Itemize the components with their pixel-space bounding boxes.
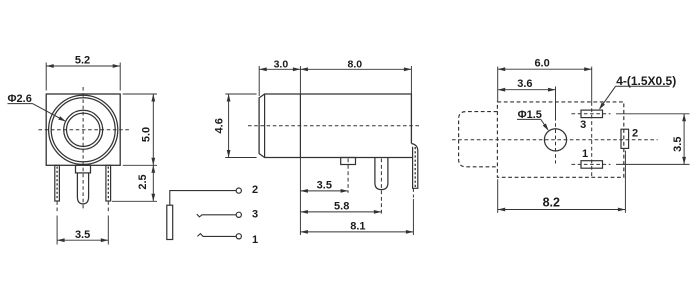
side view barrel/body junction line bbox=[299, 94, 301, 158]
dimension 4.6 extension lines bbox=[225, 94, 256, 158]
svg-text:5.8: 5.8 bbox=[334, 200, 349, 212]
schematic terminal circle 2 bbox=[236, 188, 241, 193]
dimension 8.1 extension line bbox=[412, 199, 414, 235]
dimension 3.0 bbox=[259, 58, 300, 71]
dimension 4.6 bbox=[213, 94, 230, 158]
svg-text:5.0: 5.0 bbox=[141, 127, 153, 142]
svg-text:8.2: 8.2 bbox=[543, 195, 560, 209]
side terminal pin (side view) bbox=[411, 144, 417, 198]
label Φ1.5 with leader bbox=[517, 109, 549, 131]
top view body (hidden outline) bbox=[497, 102, 623, 177]
dimension 3.5 (top view) bbox=[672, 114, 686, 165]
dimension 3.6 bbox=[498, 78, 556, 92]
front view hole outer circle bbox=[64, 110, 103, 149]
dimension 3.5 (front view) bbox=[57, 229, 108, 242]
schematic wire to pin 3 bbox=[197, 214, 236, 217]
hole circle Φ1.5 (top view) bbox=[544, 129, 566, 151]
front view vertical centerline bbox=[82, 87, 84, 210]
side view centerline bbox=[248, 125, 419, 127]
svg-text:3.0: 3.0 bbox=[274, 58, 289, 70]
center pin sleeve collar bbox=[76, 165, 91, 173]
side view barrel chamfer line bbox=[264, 94, 266, 158]
dimension 3.5 (side view) bbox=[300, 179, 348, 192]
pin left (front view) bbox=[55, 165, 60, 201]
svg-text:5.2: 5.2 bbox=[75, 55, 90, 67]
pin right (front view) bbox=[106, 165, 111, 201]
svg-text:8.1: 8.1 bbox=[350, 220, 365, 232]
schematic plug body bbox=[167, 205, 173, 239]
front view hole circle Φ2.6 bbox=[67, 113, 100, 146]
pin centerline tails (front view) bbox=[57, 201, 108, 212]
svg-text:3: 3 bbox=[252, 208, 258, 220]
dimension 5.0 bbox=[141, 94, 156, 165]
schematic terminal circle 1 bbox=[236, 234, 241, 239]
svg-text:2: 2 bbox=[632, 128, 638, 140]
pad 1 centerline bbox=[572, 163, 611, 165]
front view outer barrel circle bbox=[49, 95, 118, 164]
dimension 5.2 bbox=[46, 55, 120, 68]
pad 3 centerline bbox=[572, 113, 611, 115]
side view body outline bbox=[259, 94, 413, 158]
dimension 8.1 bbox=[300, 220, 413, 233]
top view main centerline bbox=[452, 139, 658, 141]
note 4-(1.5X0.5) with leader bbox=[599, 74, 676, 110]
label Φ2.6 with leader bbox=[8, 93, 66, 122]
svg-text:1: 1 bbox=[582, 148, 588, 160]
mounting tab (side view) bbox=[341, 158, 356, 193]
svg-text:2.5: 2.5 bbox=[137, 174, 149, 189]
solder pad 3 (top view) bbox=[581, 110, 603, 118]
hole vertical centerline bbox=[555, 87, 557, 164]
solder pad 2 (top view) bbox=[621, 129, 629, 148]
dimension 3.0/8.0 extension lines bbox=[259, 66, 411, 96]
svg-text:6.0: 6.0 bbox=[534, 57, 549, 69]
front view body outline bbox=[46, 94, 120, 165]
dimension 2.5 bbox=[137, 165, 155, 201]
top view barrel (hidden outline) bbox=[459, 112, 498, 167]
solder pad 1 (top view) bbox=[581, 161, 603, 169]
dimension 5.8 bbox=[300, 200, 381, 213]
dimension 6.0/3.6 extension lines bbox=[498, 67, 592, 102]
svg-text:3: 3 bbox=[580, 119, 586, 131]
svg-text:3.5: 3.5 bbox=[75, 229, 90, 241]
pad axis hidden line bbox=[591, 102, 593, 177]
svg-text:4.6: 4.6 bbox=[213, 118, 225, 133]
schematic terminal circle 3 bbox=[236, 212, 241, 217]
bottom dimensions datum extension line bbox=[299, 158, 301, 236]
center pin shank bbox=[77, 173, 88, 204]
svg-text:2: 2 bbox=[252, 184, 258, 196]
svg-text:1: 1 bbox=[252, 234, 258, 246]
front view barrel inner ring bbox=[51, 98, 115, 162]
dimension 5.2 extension lines bbox=[46, 63, 120, 91]
dimension 3.5 extension lines (top view) bbox=[616, 114, 690, 165]
svg-text:8.0: 8.0 bbox=[347, 58, 362, 70]
center pin (side view) bbox=[375, 158, 388, 215]
dimension 8.2 bbox=[498, 195, 626, 211]
dimension 3.5 extension lines (front view) bbox=[57, 216, 108, 245]
svg-text:3.6: 3.6 bbox=[517, 78, 532, 90]
dimension 8.0 bbox=[300, 58, 411, 71]
schematic wire to pin 2 bbox=[170, 191, 236, 206]
front view horizontal centerline bbox=[39, 129, 131, 131]
svg-text:Φ2.6: Φ2.6 bbox=[8, 93, 32, 105]
svg-text:3.5: 3.5 bbox=[317, 179, 332, 191]
dimension 5.0 and 2.5 extension lines bbox=[112, 94, 157, 201]
dimension 8.2 extension lines bbox=[498, 151, 626, 213]
schematic wire to pin 1 bbox=[197, 234, 236, 237]
svg-text:3.5: 3.5 bbox=[672, 137, 684, 152]
dimension 6.0 bbox=[498, 57, 592, 71]
